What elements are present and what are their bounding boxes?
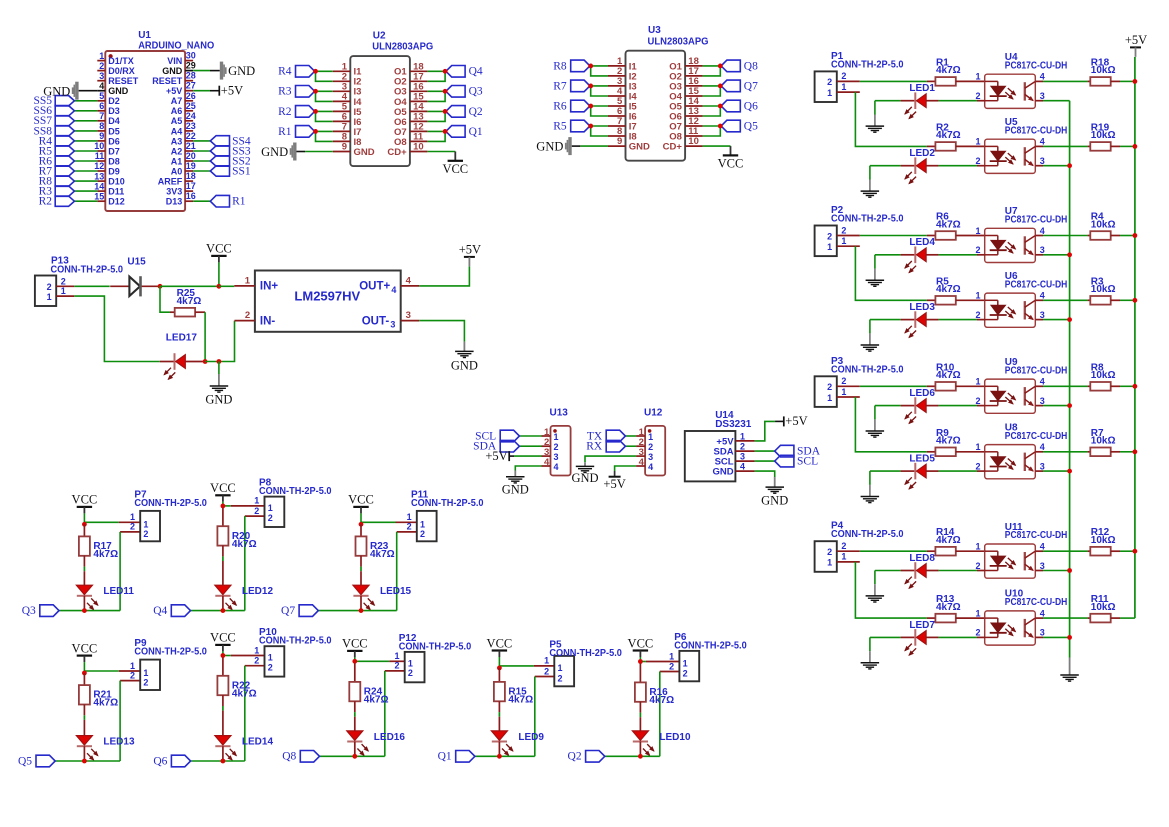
wire xyxy=(755,471,775,477)
wire xyxy=(74,130,97,132)
svg-text:4: 4 xyxy=(1040,542,1045,552)
junction xyxy=(588,84,593,89)
svg-text:VCC: VCC xyxy=(72,641,98,655)
junction xyxy=(203,359,208,364)
svg-text:3: 3 xyxy=(99,71,104,81)
net flag Q1 xyxy=(446,126,465,138)
svg-text:AREF: AREF xyxy=(158,177,183,187)
svg-text:30: 30 xyxy=(186,51,196,61)
svg-text:3: 3 xyxy=(406,310,411,321)
net flag SS2 xyxy=(210,156,229,166)
net flag R4 xyxy=(296,66,315,78)
junction xyxy=(497,754,502,759)
net flag TX xyxy=(606,430,625,442)
opto-coupler U11 PC817C-CU-DH xyxy=(975,522,1067,578)
junction xyxy=(638,754,643,759)
svg-text:PC817C-CU-DH: PC817C-CU-DH xyxy=(1005,530,1068,541)
wire xyxy=(316,91,333,101)
junction xyxy=(1067,635,1072,640)
svg-text:R4: R4 xyxy=(278,66,292,78)
wire xyxy=(499,665,534,667)
wire xyxy=(1120,385,1135,387)
svg-text:1: 1 xyxy=(61,286,66,296)
svg-text:2: 2 xyxy=(407,522,412,532)
wire xyxy=(703,66,721,76)
svg-text:GND: GND xyxy=(571,471,598,485)
svg-text:2: 2 xyxy=(143,529,148,539)
net flag SS8 xyxy=(55,126,74,136)
wire xyxy=(427,131,445,141)
svg-text:4k7Ω: 4k7Ω xyxy=(936,65,961,76)
wire xyxy=(585,456,636,462)
wire xyxy=(318,610,396,612)
resistor R1 4k7 xyxy=(927,57,985,85)
svg-text:20: 20 xyxy=(186,151,196,161)
net flag Q2 xyxy=(586,751,605,763)
ground GND at U2 pin 9 xyxy=(293,143,296,161)
wire xyxy=(860,80,927,82)
svg-text:GND: GND xyxy=(43,84,70,98)
wire xyxy=(939,165,977,167)
svg-text:+5V: +5V xyxy=(603,477,625,491)
net flag Q4 xyxy=(171,605,190,617)
resistor R24 4k7 xyxy=(349,663,388,732)
wire xyxy=(875,100,901,102)
LED LED6 xyxy=(901,388,939,423)
IC U2 ULN2803APG xyxy=(333,31,434,167)
svg-text:GND: GND xyxy=(502,483,529,497)
svg-text:CONN-TH-2P-5.0: CONN-TH-2P-5.0 xyxy=(831,364,904,375)
wire xyxy=(316,90,333,92)
svg-text:2: 2 xyxy=(245,310,250,321)
svg-text:VCC: VCC xyxy=(348,493,374,507)
svg-text:2: 2 xyxy=(268,513,273,523)
svg-text:4k7Ω: 4k7Ω xyxy=(649,695,674,706)
wire xyxy=(384,671,386,756)
wire xyxy=(74,190,97,192)
svg-text:1: 1 xyxy=(254,496,259,506)
LED LED4 xyxy=(901,237,939,272)
net flag R1 xyxy=(296,126,315,138)
svg-text:3: 3 xyxy=(1040,461,1045,471)
junction xyxy=(82,522,87,527)
svg-text:ARDUINO_NANO: ARDUINO_NANO xyxy=(138,40,214,51)
svg-text:2: 2 xyxy=(827,382,832,392)
svg-text:D1/TX: D1/TX xyxy=(108,56,134,66)
svg-text:10kΩ: 10kΩ xyxy=(1091,602,1116,613)
svg-text:11: 11 xyxy=(95,151,105,161)
svg-text:GND: GND xyxy=(536,140,563,154)
junction xyxy=(638,659,643,664)
svg-text:Q3: Q3 xyxy=(22,605,36,617)
ground under LED3 xyxy=(869,320,871,334)
power +5V at U1 pin 27 xyxy=(218,86,220,96)
junction xyxy=(1067,568,1072,573)
connector P1 CONN-TH-2P-5.0 xyxy=(815,51,904,102)
svg-text:CD+: CD+ xyxy=(387,147,407,158)
svg-text:2: 2 xyxy=(669,661,674,671)
svg-text:2: 2 xyxy=(975,561,980,571)
junction xyxy=(1067,252,1072,257)
svg-text:3: 3 xyxy=(554,452,559,462)
svg-text:GND: GND xyxy=(761,493,788,507)
resistor R3 10k xyxy=(1043,276,1120,304)
wire xyxy=(427,71,445,81)
wire xyxy=(427,110,445,112)
svg-text:7: 7 xyxy=(99,111,104,121)
svg-text:D7: D7 xyxy=(108,146,120,156)
svg-text:2: 2 xyxy=(841,225,846,235)
wire xyxy=(74,150,97,152)
ground GND below LED17 node xyxy=(218,374,220,386)
wire xyxy=(218,362,220,375)
junction xyxy=(313,69,318,74)
wire xyxy=(119,532,121,611)
svg-text:4: 4 xyxy=(1040,72,1045,82)
wire xyxy=(55,760,120,762)
net flag SS4 xyxy=(210,136,229,146)
svg-text:A0: A0 xyxy=(171,166,183,176)
svg-text:D5: D5 xyxy=(108,126,120,136)
wire xyxy=(427,130,445,132)
wire xyxy=(244,666,246,761)
net flag R2 xyxy=(55,196,74,206)
wire xyxy=(939,570,977,572)
svg-text:1: 1 xyxy=(975,442,980,452)
svg-text:OUT+: OUT+ xyxy=(359,281,390,293)
net flag Q4 xyxy=(446,66,465,78)
ground under LED7 xyxy=(869,637,871,651)
svg-text:LED17: LED17 xyxy=(166,332,198,343)
wire xyxy=(419,321,464,342)
svg-text:4k7Ω: 4k7Ω xyxy=(364,695,389,706)
svg-text:RESET: RESET xyxy=(152,76,183,86)
wire xyxy=(703,126,721,136)
svg-text:A4: A4 xyxy=(171,126,183,136)
LED LED5 xyxy=(901,454,939,489)
svg-text:GND: GND xyxy=(261,145,288,159)
wire xyxy=(591,106,608,116)
wire xyxy=(591,85,608,87)
svg-text:CONN-TH-2P-5.0: CONN-TH-2P-5.0 xyxy=(549,648,622,659)
wire xyxy=(870,319,901,321)
svg-text:4k7Ω: 4k7Ω xyxy=(936,370,961,381)
svg-text:1: 1 xyxy=(827,558,832,568)
power +5V at U14 pin 1 xyxy=(783,416,785,426)
LED LED16 xyxy=(347,731,406,756)
junction xyxy=(1133,233,1138,238)
svg-text:Q3: Q3 xyxy=(469,86,483,98)
svg-text:Q1: Q1 xyxy=(438,751,452,763)
svg-text:3: 3 xyxy=(1040,245,1045,255)
junction xyxy=(221,504,226,509)
wire xyxy=(193,70,210,72)
wire xyxy=(1043,470,1070,472)
net flag R8 xyxy=(571,60,590,72)
net flag Q7 xyxy=(299,605,318,617)
svg-text:LED10: LED10 xyxy=(659,732,691,743)
wire xyxy=(160,285,219,287)
svg-text:LED14: LED14 xyxy=(242,737,274,748)
svg-text:GND: GND xyxy=(629,142,650,153)
svg-text:10kΩ: 10kΩ xyxy=(1091,284,1116,295)
wire xyxy=(427,111,445,121)
connector P6 CONN-TH-2P-5.0 xyxy=(646,632,747,681)
wire xyxy=(860,235,927,237)
svg-text:15: 15 xyxy=(94,191,104,201)
svg-text:1: 1 xyxy=(841,552,846,562)
net flag Q2 xyxy=(446,106,465,118)
svg-text:1: 1 xyxy=(407,512,412,522)
svg-text:2: 2 xyxy=(975,396,980,406)
svg-text:2: 2 xyxy=(408,668,413,678)
junction xyxy=(443,69,448,74)
svg-text:12: 12 xyxy=(94,161,104,171)
connector U13 xyxy=(542,408,571,476)
svg-text:CONN-TH-2P-5.0: CONN-TH-2P-5.0 xyxy=(411,498,484,509)
svg-text:17: 17 xyxy=(186,181,196,191)
svg-text:1: 1 xyxy=(683,659,688,669)
net flag Q6 xyxy=(721,100,740,112)
svg-text:1: 1 xyxy=(975,542,980,552)
svg-text:A1: A1 xyxy=(171,156,183,166)
wire xyxy=(74,160,97,162)
svg-text:LED1: LED1 xyxy=(909,83,935,94)
svg-text:1: 1 xyxy=(841,82,846,92)
svg-text:4: 4 xyxy=(639,457,645,468)
wire xyxy=(755,460,775,462)
svg-text:1: 1 xyxy=(669,651,674,661)
connector P5 CONN-TH-2P-5.0 xyxy=(534,639,622,686)
svg-text:3: 3 xyxy=(648,452,653,462)
svg-text:2: 2 xyxy=(975,310,980,320)
svg-text:3: 3 xyxy=(1040,396,1045,406)
wire xyxy=(1043,100,1070,102)
IC U14 DS3231 xyxy=(685,410,755,481)
svg-text:4k7Ω: 4k7Ω xyxy=(508,695,533,706)
svg-text:Q2: Q2 xyxy=(469,106,483,118)
wire xyxy=(605,755,660,757)
svg-text:OUT-: OUT- xyxy=(362,315,390,327)
wire xyxy=(79,90,98,92)
svg-text:2: 2 xyxy=(558,674,563,684)
junction xyxy=(588,104,593,109)
resistor R23 4k7 xyxy=(356,524,395,586)
net flag R8 xyxy=(55,176,74,186)
svg-text:29: 29 xyxy=(186,61,196,71)
wire xyxy=(219,285,234,287)
junction xyxy=(1067,317,1072,322)
resistor R6 4k7 xyxy=(927,212,985,240)
junction xyxy=(1133,449,1138,454)
svg-text:4k7Ω: 4k7Ω xyxy=(93,549,118,560)
svg-text:LED7: LED7 xyxy=(909,620,935,631)
svg-text:ULN2803APG: ULN2803APG xyxy=(648,36,709,47)
wire xyxy=(316,131,333,141)
svg-text:2: 2 xyxy=(268,663,273,673)
svg-text:D9: D9 xyxy=(108,166,120,176)
wire xyxy=(193,150,210,152)
svg-text:4k7Ω: 4k7Ω xyxy=(232,539,257,550)
svg-text:U2: U2 xyxy=(373,31,386,42)
wire xyxy=(193,170,210,172)
svg-text:IN+: IN+ xyxy=(260,281,279,293)
svg-text:VCC: VCC xyxy=(718,156,744,170)
svg-text:VCC: VCC xyxy=(487,636,513,650)
net flag R6 xyxy=(571,100,590,112)
wire xyxy=(191,760,245,762)
svg-text:2: 2 xyxy=(47,282,52,292)
ground GND at U1 pin 4 xyxy=(75,82,78,100)
junction xyxy=(1067,403,1072,408)
svg-text:CONN-TH-2P-5.0: CONN-TH-2P-5.0 xyxy=(831,59,904,70)
svg-text:27: 27 xyxy=(186,81,196,91)
svg-text:18: 18 xyxy=(186,171,196,181)
svg-text:4: 4 xyxy=(648,462,653,472)
svg-text:VCC: VCC xyxy=(442,162,468,176)
wire xyxy=(193,140,210,142)
resistor R20 4k7 xyxy=(217,508,256,586)
wire xyxy=(320,755,385,757)
svg-text:2: 2 xyxy=(827,547,832,557)
svg-text:4k7Ω: 4k7Ω xyxy=(936,219,961,230)
svg-text:CONN-TH-2P-5.0: CONN-TH-2P-5.0 xyxy=(259,636,332,647)
svg-text:U3: U3 xyxy=(648,25,661,36)
power VCC at U3 pin 10 xyxy=(703,145,731,147)
connector P4 CONN-TH-2P-5.0 xyxy=(815,521,904,572)
svg-text:D11: D11 xyxy=(108,187,124,197)
svg-text:1: 1 xyxy=(975,137,980,147)
wire xyxy=(755,421,776,441)
resistor R9 4k7 xyxy=(927,428,985,456)
svg-text:GND: GND xyxy=(712,467,733,478)
power VCC at U2 pin 10 xyxy=(427,151,455,153)
wire xyxy=(939,319,977,321)
svg-text:+5V: +5V xyxy=(1125,33,1147,47)
wire xyxy=(659,672,661,757)
resistor R5 4k7 xyxy=(927,276,985,304)
svg-text:1: 1 xyxy=(975,608,980,618)
wire xyxy=(855,562,927,618)
wire xyxy=(870,165,901,167)
svg-text:VCC: VCC xyxy=(210,481,236,495)
svg-text:2: 2 xyxy=(975,628,980,638)
svg-text:1: 1 xyxy=(394,651,399,661)
svg-text:3V3: 3V3 xyxy=(166,187,182,197)
connector P12 CONN-TH-2P-5.0 xyxy=(385,633,472,682)
ground at bus bottom xyxy=(1069,658,1071,675)
svg-text:4: 4 xyxy=(391,285,396,295)
wire xyxy=(475,755,535,757)
svg-text:VCC: VCC xyxy=(628,636,654,650)
junction xyxy=(443,129,448,134)
wire xyxy=(1120,80,1135,82)
svg-text:1: 1 xyxy=(245,276,251,287)
resistor R14 4k7 xyxy=(927,527,985,555)
junction xyxy=(82,608,87,613)
wire xyxy=(860,550,927,552)
svg-text:1: 1 xyxy=(827,88,832,98)
svg-text:4: 4 xyxy=(1040,377,1045,387)
wire xyxy=(591,66,608,76)
svg-text:CONN-TH-2P-5.0: CONN-TH-2P-5.0 xyxy=(831,214,904,225)
wire xyxy=(703,106,721,116)
ground GND at U1 pin 29 xyxy=(220,62,223,80)
wire xyxy=(939,254,977,256)
svg-text:4: 4 xyxy=(740,462,745,472)
svg-text:CONN-TH-2P-5.0: CONN-TH-2P-5.0 xyxy=(134,498,207,509)
net flag SCL xyxy=(500,430,519,442)
svg-text:PC817C-CU-DH: PC817C-CU-DH xyxy=(1005,215,1068,226)
svg-text:22: 22 xyxy=(186,131,196,141)
svg-text:1: 1 xyxy=(130,661,135,671)
ground under LED2 xyxy=(869,166,871,180)
net flag Q6 xyxy=(171,755,190,767)
power +5V at U13 pin 3 xyxy=(508,451,510,461)
net flag R1 xyxy=(210,195,229,207)
junction xyxy=(217,284,222,289)
svg-text:LM2597HV: LM2597HV xyxy=(294,289,360,304)
wire xyxy=(160,286,170,312)
wire xyxy=(193,160,210,162)
wire xyxy=(193,90,210,92)
wire xyxy=(755,450,775,452)
svg-text:+5V: +5V xyxy=(221,84,243,98)
power +5V at U12 pin 4 xyxy=(614,471,616,477)
svg-text:2: 2 xyxy=(254,656,259,666)
svg-text:2: 2 xyxy=(841,541,846,551)
junction xyxy=(588,124,593,129)
net flag SCL xyxy=(775,455,794,467)
junction xyxy=(313,109,318,114)
net flag SS3 xyxy=(210,146,229,156)
svg-text:PC817C-CU-DH: PC817C-CU-DH xyxy=(1005,125,1068,136)
wire xyxy=(1043,570,1070,572)
svg-text:4: 4 xyxy=(1040,608,1045,618)
wire xyxy=(855,92,927,146)
wire xyxy=(74,100,97,102)
svg-text:1: 1 xyxy=(975,226,980,236)
wire xyxy=(244,516,246,611)
wire xyxy=(860,385,927,387)
junction xyxy=(1133,384,1138,389)
resistor R13 4k7 xyxy=(927,594,985,622)
svg-text:GND: GND xyxy=(228,64,255,78)
resistor R15 4k7 xyxy=(494,668,533,732)
svg-text:LED16: LED16 xyxy=(374,732,406,743)
junction xyxy=(1133,79,1138,84)
svg-text:19: 19 xyxy=(186,161,196,171)
svg-text:16: 16 xyxy=(186,191,196,201)
wire collector bus xyxy=(1069,101,1071,658)
opto-coupler U7 PC817C-CU-DH xyxy=(975,206,1067,262)
net flag SS7 xyxy=(55,116,74,126)
svg-text:GND: GND xyxy=(451,358,478,372)
wire xyxy=(625,435,636,437)
svg-text:R3: R3 xyxy=(278,86,292,98)
net flag R3 xyxy=(55,186,74,196)
svg-text:LED15: LED15 xyxy=(380,586,412,597)
wire xyxy=(191,610,245,612)
net flag SDA xyxy=(775,445,794,457)
svg-text:4k7Ω: 4k7Ω xyxy=(93,698,118,709)
svg-text:D10: D10 xyxy=(108,177,125,187)
wire xyxy=(205,321,234,362)
svg-text:3: 3 xyxy=(390,320,395,330)
wire xyxy=(939,470,977,472)
svg-text:+5V: +5V xyxy=(459,243,481,257)
net flag R3 xyxy=(296,86,315,98)
